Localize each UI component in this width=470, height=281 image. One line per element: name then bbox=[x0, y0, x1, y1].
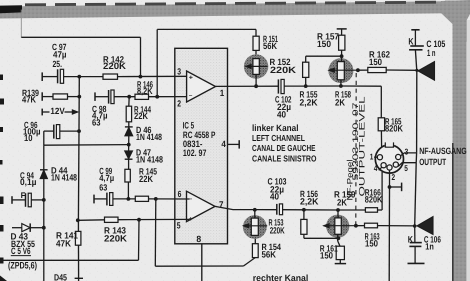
svg-text:150: 150 bbox=[365, 239, 378, 249]
svg-text:6: 6 bbox=[178, 189, 182, 199]
svg-text:10: 10 bbox=[24, 133, 33, 143]
svg-text:LEFT CHANNEL: LEFT CHANNEL bbox=[252, 133, 306, 143]
svg-text:22K: 22K bbox=[139, 174, 153, 184]
svg-text:220K: 220K bbox=[104, 233, 127, 243]
svg-text:4: 4 bbox=[221, 139, 226, 149]
svg-text:1 n: 1 n bbox=[427, 48, 436, 58]
svg-text:820K: 820K bbox=[365, 194, 383, 204]
svg-text:K: K bbox=[408, 234, 413, 244]
svg-text:1N 4148: 1N 4148 bbox=[51, 173, 77, 183]
svg-text:47K: 47K bbox=[56, 238, 71, 248]
svg-text:+: + bbox=[189, 74, 193, 81]
svg-text:820K: 820K bbox=[385, 123, 403, 133]
svg-text:1n: 1n bbox=[425, 242, 434, 252]
svg-text:1N 4148: 1N 4148 bbox=[136, 132, 162, 142]
svg-text:3: 3 bbox=[177, 66, 181, 76]
svg-text:rechter Kanal: rechter Kanal bbox=[253, 273, 308, 281]
svg-text:25.: 25. bbox=[53, 59, 63, 69]
svg-text:220K: 220K bbox=[270, 65, 296, 75]
svg-text:2: 2 bbox=[177, 98, 181, 108]
svg-text:63: 63 bbox=[92, 117, 101, 127]
svg-text:C 5 V6: C 5 V6 bbox=[11, 246, 31, 256]
svg-text:40: 40 bbox=[270, 192, 279, 202]
svg-text:5: 5 bbox=[404, 163, 408, 173]
svg-text:NF-AUSGANG: NF-AUSGANG bbox=[419, 146, 467, 156]
svg-text:2K: 2K bbox=[335, 97, 345, 107]
svg-text:2,2K: 2,2K bbox=[300, 197, 319, 207]
svg-text:8,2K: 8,2K bbox=[137, 86, 153, 96]
svg-text:47K: 47K bbox=[22, 95, 36, 105]
svg-text:OUTPUT: OUTPUT bbox=[419, 157, 446, 167]
svg-text:47µ: 47µ bbox=[53, 50, 67, 60]
svg-text:7: 7 bbox=[219, 199, 224, 209]
svg-text:F: F bbox=[21, 191, 26, 200]
svg-text:220K: 220K bbox=[270, 225, 285, 235]
svg-text:150: 150 bbox=[320, 251, 333, 261]
svg-text:(ZPD5,6): (ZPD5,6) bbox=[8, 260, 37, 271]
svg-text:2,2K: 2,2K bbox=[300, 97, 318, 107]
svg-text:K: K bbox=[408, 37, 413, 47]
svg-text:D45: D45 bbox=[54, 272, 67, 281]
svg-text:150: 150 bbox=[317, 39, 331, 49]
svg-text:220K: 220K bbox=[103, 61, 126, 71]
svg-text:3: 3 bbox=[405, 146, 409, 156]
svg-text:150: 150 bbox=[369, 57, 382, 67]
svg-text:OUTPUT-LEVEL: OUTPUT-LEVEL bbox=[357, 96, 366, 197]
svg-text:40: 40 bbox=[277, 109, 286, 119]
svg-text:8: 8 bbox=[196, 234, 201, 244]
svg-text:12V: 12V bbox=[50, 106, 64, 116]
svg-text:22K: 22K bbox=[134, 111, 148, 121]
svg-text:0,1µ: 0,1µ bbox=[20, 177, 37, 187]
svg-text:1: 1 bbox=[220, 88, 225, 98]
svg-text:1: 1 bbox=[370, 152, 374, 162]
svg-text:CANALE SINISTRO: CANALE SINISTRO bbox=[252, 154, 317, 164]
svg-text:102. 97: 102. 97 bbox=[183, 148, 207, 158]
svg-text:1N 4148: 1N 4148 bbox=[136, 154, 163, 164]
svg-text:4: 4 bbox=[374, 163, 378, 173]
svg-text:56K: 56K bbox=[262, 249, 277, 259]
svg-text:CANAL DE GAUCHE: CANAL DE GAUCHE bbox=[252, 143, 316, 153]
svg-text:2: 2 bbox=[392, 172, 396, 182]
svg-text:63: 63 bbox=[99, 183, 107, 193]
svg-text:5: 5 bbox=[177, 220, 181, 230]
svg-text:linker Kanal: linker Kanal bbox=[252, 123, 299, 133]
svg-text:56K: 56K bbox=[263, 41, 277, 51]
